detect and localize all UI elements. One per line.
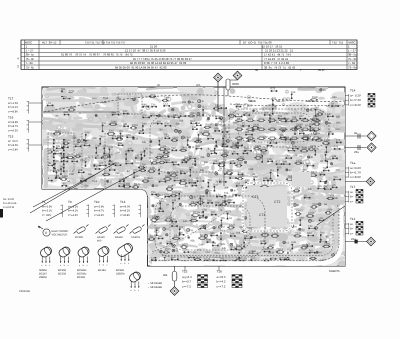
svg-text:C86: C86 bbox=[55, 175, 60, 178]
svg-text:T42: T42 bbox=[285, 155, 290, 158]
svg-text:C124: C124 bbox=[229, 223, 236, 226]
svg-text:R61: R61 bbox=[309, 249, 314, 252]
svg-text:69n: 69n bbox=[182, 101, 187, 104]
voltage table T13 bbox=[120, 200, 141, 217]
svg-text:c=+7.2: c=+7.2 bbox=[217, 284, 226, 288]
svg-text:R82: R82 bbox=[197, 178, 202, 181]
svg-text:91 80 79 78 75 74 75 66: 91 80 79 78 75 74 75 66 67 79 68 65 75 7… bbox=[61, 53, 133, 57]
svg-text:25k: 25k bbox=[293, 154, 298, 157]
svg-text:a=+3.8V: a=+3.8V bbox=[94, 206, 104, 209]
svg-text:C95601B: C95601B bbox=[19, 290, 30, 293]
svg-text:T81: T81 bbox=[61, 88, 66, 91]
svg-text:C368: C368 bbox=[324, 243, 331, 246]
svg-text:T17: T17 bbox=[8, 97, 14, 101]
small can MFS364B bbox=[128, 271, 142, 292]
svg-text:S864: S864 bbox=[181, 147, 187, 150]
small capacitor on 22a bbox=[355, 240, 358, 244]
svg-text:C51: C51 bbox=[164, 193, 169, 196]
svg-text:T15: T15 bbox=[8, 135, 14, 139]
svg-text:L16: L16 bbox=[267, 177, 272, 180]
svg-text:a=+1.5V: a=+1.5V bbox=[8, 102, 18, 105]
svg-text:T19: T19 bbox=[207, 179, 212, 182]
svg-text:b=: b= bbox=[350, 227, 354, 231]
svg-text:TA4001: TA4001 bbox=[131, 236, 140, 239]
dashed component box top left bbox=[118, 94, 142, 114]
svg-text:R910: R910 bbox=[64, 139, 71, 142]
svg-text:BY409: BY409 bbox=[75, 236, 83, 239]
svg-text:T89: T89 bbox=[158, 129, 163, 132]
svg-text:7– 34: 7– 34 bbox=[348, 61, 355, 65]
leader line 3 bbox=[46, 170, 140, 221]
copper trace: long worm 3 bbox=[120, 93, 200, 97]
test point diamond 21a bbox=[233, 71, 242, 80]
svg-text:L25: L25 bbox=[287, 250, 292, 253]
svg-text:T92: T92 bbox=[61, 182, 66, 185]
svg-text:T80: T80 bbox=[171, 218, 176, 221]
svg-text:D59: D59 bbox=[158, 208, 163, 211]
svg-text:T193: T193 bbox=[312, 203, 318, 206]
svg-text:R56: R56 bbox=[173, 114, 178, 117]
svg-text:D72: D72 bbox=[227, 210, 232, 213]
svg-text:T76: T76 bbox=[335, 169, 340, 172]
svg-text:D93: D93 bbox=[220, 230, 225, 233]
svg-text:L589: L589 bbox=[327, 209, 333, 212]
svg-text:c=+2.8V: c=+2.8V bbox=[8, 148, 18, 151]
svg-text:S439: S439 bbox=[253, 124, 259, 127]
connector diamond 22a bbox=[367, 237, 376, 246]
svg-text:T394: T394 bbox=[164, 97, 170, 100]
svg-text:L86: L86 bbox=[232, 150, 237, 153]
svg-text:R38: R38 bbox=[233, 122, 238, 125]
svg-text:R98: R98 bbox=[164, 122, 169, 125]
svg-text:93n: 93n bbox=[336, 121, 341, 124]
svg-text:L26: L26 bbox=[55, 169, 60, 172]
svg-text:T83: T83 bbox=[56, 145, 61, 148]
svg-text:a=y 8.4: a=y 8.4 bbox=[182, 275, 192, 279]
svg-text:b=+0.7: b=+0.7 bbox=[182, 280, 191, 284]
dashed loop around CT block bbox=[243, 183, 292, 231]
svg-text:R118: R118 bbox=[132, 124, 138, 127]
dashed arcs bottom right corner bbox=[152, 205, 339, 260]
dashed group box left bbox=[48, 133, 74, 171]
svg-text:T22: T22 bbox=[71, 158, 76, 161]
svg-text:L97: L97 bbox=[325, 151, 330, 154]
svg-text:SM–B: SM–B bbox=[248, 99, 256, 103]
white margin around CT block bbox=[243, 183, 292, 231]
svg-text:c=+0.8 W: c=+0.8 W bbox=[3, 206, 15, 209]
svg-text:T669: T669 bbox=[124, 182, 130, 185]
svg-text:L68: L68 bbox=[196, 122, 201, 125]
copper trace: long horizontal worm 1 bbox=[47, 93, 108, 96]
svg-text:c=: c= bbox=[350, 199, 353, 203]
matrix of pads upper right group bbox=[235, 119, 320, 140]
resistor 500R vertical bbox=[226, 79, 238, 96]
svg-text:C591: C591 bbox=[199, 198, 206, 201]
svg-text:R44: R44 bbox=[190, 120, 195, 123]
svg-text:L63: L63 bbox=[319, 217, 324, 220]
dashed loop center left bbox=[150, 116, 226, 172]
svg-text:D48: D48 bbox=[249, 168, 254, 171]
svg-text:R58: R58 bbox=[214, 128, 219, 131]
svg-text:b=+4.2: b=+4.2 bbox=[217, 280, 226, 284]
svg-text:77n: 77n bbox=[197, 249, 202, 252]
power transistor cylinder BC328 bbox=[116, 242, 134, 265]
svg-text:Ru 53 W: Ru 53 W bbox=[3, 198, 14, 201]
svg-text:S98: S98 bbox=[173, 161, 178, 164]
horizontal wire from left edge bbox=[42, 111, 120, 113]
svg-text:T31: T31 bbox=[267, 142, 272, 145]
svg-text:T905: T905 bbox=[295, 232, 301, 235]
svg-text:73– 6c: 73– 6c bbox=[348, 66, 357, 70]
svg-text:S52: S52 bbox=[235, 142, 240, 145]
capacitor on 9a line bbox=[358, 134, 360, 139]
svg-text:T67: T67 bbox=[303, 169, 308, 172]
svg-text:65n: 65n bbox=[92, 137, 97, 140]
svg-text:C47: C47 bbox=[299, 115, 304, 118]
resistor 40k bbox=[172, 272, 177, 282]
svg-text:C72: C72 bbox=[158, 166, 163, 169]
svg-text:CT2: CT2 bbox=[274, 200, 281, 204]
dashed alignment path right bbox=[230, 104, 344, 106]
leader line 4 bottom right bbox=[317, 206, 345, 225]
wide corner trace bottom right bbox=[152, 212, 336, 255]
svg-text:C37: C37 bbox=[140, 151, 145, 154]
svg-text:L36: L36 bbox=[179, 231, 184, 234]
svg-text:a=+8.0V: a=+8.0V bbox=[120, 206, 130, 209]
svg-text:T16: T16 bbox=[8, 116, 14, 120]
svg-text:c=+8.9V: c=+8.9V bbox=[8, 110, 18, 113]
svg-text:T14: T14 bbox=[350, 89, 356, 93]
svg-text:R76: R76 bbox=[235, 113, 240, 116]
svg-text:T1a: T1a bbox=[350, 161, 356, 165]
svg-text:T93: T93 bbox=[278, 115, 283, 118]
pointer line T17 bbox=[29, 102, 42, 104]
svg-text:69n: 69n bbox=[335, 128, 340, 131]
voltage table T15 bbox=[8, 135, 29, 152]
svg-text:T11: T11 bbox=[270, 169, 275, 172]
svg-text:L905: L905 bbox=[295, 187, 301, 190]
svg-text:T582: T582 bbox=[204, 130, 210, 133]
svg-text:S86: S86 bbox=[142, 103, 147, 106]
svg-text:T95: T95 bbox=[220, 217, 225, 220]
svg-text:14n: 14n bbox=[183, 220, 188, 223]
svg-text:L45: L45 bbox=[135, 155, 140, 158]
svg-text:T75: T75 bbox=[336, 139, 341, 142]
svg-text:82k: 82k bbox=[308, 188, 313, 191]
svg-text:c=: c= bbox=[350, 231, 353, 235]
svg-text:C90: C90 bbox=[95, 145, 100, 148]
svg-text:T91: T91 bbox=[115, 162, 120, 165]
svg-text:T44: T44 bbox=[151, 103, 156, 106]
svg-text:R92: R92 bbox=[166, 159, 171, 162]
svg-text:L80: L80 bbox=[328, 131, 333, 134]
svg-text:D13: D13 bbox=[291, 91, 296, 94]
top alignment data table bbox=[21, 40, 357, 70]
transistor can BC147 bbox=[39, 246, 53, 267]
bracket lines right margin bbox=[345, 94, 349, 235]
svg-text:97n: 97n bbox=[237, 219, 242, 222]
leader line 2 bbox=[33, 172, 100, 207]
svg-text:C986: C986 bbox=[111, 120, 118, 123]
svg-text:b=+8.6V: b=+8.6V bbox=[8, 144, 18, 147]
svg-text:C57: C57 bbox=[244, 235, 249, 238]
svg-text:2SB56: 2SB56 bbox=[39, 276, 47, 279]
note text lower left bbox=[3, 198, 17, 209]
transistor can BC548 bbox=[76, 246, 90, 267]
svg-text:T113: T113 bbox=[237, 161, 243, 164]
svg-text:b=+5.1V: b=+5.1V bbox=[8, 106, 18, 109]
svg-text:R12: R12 bbox=[123, 110, 128, 113]
svg-text:27k: 27k bbox=[172, 184, 177, 187]
svg-text:S705: S705 bbox=[165, 248, 171, 251]
svg-text:C62: C62 bbox=[306, 162, 311, 165]
svg-text:b=+8.7V: b=+8.7V bbox=[8, 125, 18, 128]
svg-text:T9: T9 bbox=[68, 200, 72, 204]
svg-text:C66: C66 bbox=[202, 209, 207, 212]
svg-text:42n: 42n bbox=[176, 122, 181, 125]
svg-text:84 95 93 98 91 90 LA 18 84 9: 84 95 93 98 91 90 LA 18 84 94 95 47 92 9… bbox=[130, 61, 187, 65]
svg-text:C31: C31 bbox=[192, 126, 197, 129]
svg-text:→ MFS364B: → MFS364B bbox=[147, 282, 162, 285]
svg-text:T60: T60 bbox=[158, 235, 163, 238]
svg-text:R571: R571 bbox=[311, 171, 318, 174]
svg-text:2SB55r: 2SB55r bbox=[116, 272, 125, 275]
svg-text:S29: S29 bbox=[194, 158, 199, 161]
svg-text:a=: a= bbox=[350, 222, 354, 226]
svg-text:22k: 22k bbox=[336, 116, 341, 119]
svg-text:T56: T56 bbox=[261, 153, 266, 156]
svg-text:C32: C32 bbox=[64, 111, 69, 114]
svg-text:D69: D69 bbox=[269, 115, 274, 118]
svg-text:S31: S31 bbox=[157, 120, 162, 123]
svg-text:55k: 55k bbox=[292, 116, 297, 119]
svg-text:T74: T74 bbox=[85, 159, 90, 162]
svg-text:22n: 22n bbox=[115, 172, 120, 175]
svg-text:c=+8.8V: c=+8.8V bbox=[120, 214, 130, 217]
svg-text:C922: C922 bbox=[163, 152, 170, 155]
svg-text:c=+8.9V: c=+8.9V bbox=[350, 175, 361, 179]
svg-text:C12: C12 bbox=[174, 177, 179, 180]
svg-text:C34: C34 bbox=[214, 145, 219, 148]
copper trace: long horizontal worm 2 bbox=[47, 101, 116, 105]
component cluster overlay: resistors capacitors pads labels bbox=[45, 88, 342, 266]
wire stem from diamond bbox=[217, 82, 219, 112]
bottom table T16 with check boxes bbox=[217, 270, 226, 289]
svg-text:b=+10.4 uA: b=+10.4 uA bbox=[3, 202, 17, 205]
svg-text:L88: L88 bbox=[332, 155, 337, 158]
svg-text:T990: T990 bbox=[153, 159, 159, 162]
svg-text:T94: T94 bbox=[178, 190, 183, 193]
svg-text:R11: R11 bbox=[102, 122, 107, 125]
svg-text:34k: 34k bbox=[200, 169, 205, 172]
svg-text:c: c bbox=[87, 264, 88, 267]
svg-text:R73: R73 bbox=[125, 151, 130, 154]
connector diamond 24a bbox=[366, 177, 374, 185]
svg-text:S985: S985 bbox=[196, 138, 202, 141]
svg-text:39k: 39k bbox=[142, 141, 147, 144]
svg-text:T47: T47 bbox=[242, 150, 247, 153]
svg-text:VOLTMETER: VOLTMETER bbox=[52, 234, 68, 237]
svg-text:D125: D125 bbox=[204, 258, 211, 261]
svg-text:c=+4.2V: c=+4.2V bbox=[68, 214, 78, 217]
svg-text:S917: S917 bbox=[141, 167, 147, 170]
svg-text:c: c bbox=[49, 264, 50, 267]
svg-text:T12: T12 bbox=[350, 217, 356, 221]
connector diamond 9a bbox=[367, 131, 376, 140]
svg-text:78k: 78k bbox=[200, 156, 205, 159]
pointer line T16 bbox=[29, 121, 42, 123]
svg-text:L92: L92 bbox=[75, 143, 80, 146]
voltage table T16 bbox=[8, 116, 29, 133]
voltage table T10 bbox=[94, 200, 115, 217]
svg-text:R86: R86 bbox=[320, 232, 325, 235]
svg-text:D61: D61 bbox=[307, 232, 312, 235]
svg-text:D696: D696 bbox=[255, 145, 262, 148]
connector diamond bottom bbox=[170, 287, 179, 296]
svg-text:T13: T13 bbox=[120, 200, 126, 204]
svg-text:T774: T774 bbox=[69, 90, 75, 93]
svg-text:T29: T29 bbox=[224, 192, 229, 195]
svg-text:D87: D87 bbox=[327, 113, 332, 116]
svg-text:c: c bbox=[138, 289, 139, 292]
svg-text:30k: 30k bbox=[224, 187, 229, 190]
svg-text:40k: 40k bbox=[163, 274, 168, 277]
diode package BY409 bbox=[74, 225, 89, 234]
svg-text:R344: R344 bbox=[190, 112, 197, 115]
svg-text:S73: S73 bbox=[126, 134, 131, 137]
svg-text:L888: L888 bbox=[313, 115, 319, 118]
svg-text:T32: T32 bbox=[323, 167, 328, 170]
svg-text:S70: S70 bbox=[179, 226, 184, 229]
svg-text:T52 T51: T52 T51 bbox=[332, 40, 344, 44]
dashed loop bottom center inner bbox=[170, 206, 250, 250]
wire to connector 23a bbox=[345, 147, 366, 149]
svg-text:C36: C36 bbox=[222, 135, 227, 138]
dashed loop upper right bbox=[229, 109, 329, 147]
svg-text:C518: C518 bbox=[191, 201, 198, 204]
svg-text:S683: S683 bbox=[165, 175, 171, 178]
svg-text:a= 0.2V: a= 0.2V bbox=[350, 94, 361, 98]
svg-text:c=+7.2: c=+7.2 bbox=[182, 284, 191, 288]
svg-text:D68: D68 bbox=[207, 200, 212, 203]
svg-text:L81: L81 bbox=[95, 166, 100, 169]
svg-text:S931: S931 bbox=[227, 169, 233, 172]
svg-text:S362: S362 bbox=[109, 130, 115, 133]
electronic voltmeter symbol bbox=[38, 226, 50, 236]
svg-text:73– 6c: 73– 6c bbox=[26, 66, 35, 70]
diode package TA4001 bbox=[130, 225, 145, 234]
svg-text:D41: D41 bbox=[326, 158, 331, 161]
svg-text:T93: T93 bbox=[151, 191, 156, 194]
voltage table T9 bbox=[68, 200, 89, 217]
copper trace: left edge vertical strip bbox=[44, 150, 48, 186]
svg-text:T50 T51 T52 T53 T54 T55 T56 T5: T50 T51 T52 T53 T54 T55 T56 T57 bbox=[85, 41, 126, 44]
voltage table T17 bbox=[8, 97, 29, 114]
svg-text:5348076: 5348076 bbox=[329, 270, 340, 273]
svg-text:L20: L20 bbox=[332, 184, 337, 187]
svg-text:T43: T43 bbox=[308, 225, 313, 228]
svg-text:84n: 84n bbox=[135, 175, 140, 178]
svg-text:C235: C235 bbox=[324, 139, 331, 142]
svg-text:L944: L944 bbox=[269, 244, 275, 247]
svg-text:T15: T15 bbox=[182, 270, 188, 274]
svg-text:L89: L89 bbox=[116, 152, 121, 155]
svg-text:R86: R86 bbox=[267, 158, 272, 161]
svg-text:D72: D72 bbox=[88, 156, 93, 159]
svg-text:c=+6.5V: c=+6.5V bbox=[8, 129, 18, 132]
svg-text:23a: 23a bbox=[354, 150, 359, 154]
svg-text:L65: L65 bbox=[309, 127, 314, 130]
svg-text:L49: L49 bbox=[325, 144, 330, 147]
svg-text:L95: L95 bbox=[189, 166, 194, 169]
svg-text:c: c bbox=[68, 264, 69, 267]
svg-text:R964: R964 bbox=[55, 130, 62, 133]
svg-text:T43: T43 bbox=[333, 176, 338, 179]
copper trace cluster: generated PCB traces bbox=[25, 79, 384, 273]
svg-text:R12: R12 bbox=[228, 199, 233, 202]
svg-text:D403: D403 bbox=[150, 235, 157, 238]
PCB board outline bbox=[42, 87, 345, 266]
svg-text:L49: L49 bbox=[172, 199, 177, 202]
svg-text:T10: T10 bbox=[94, 200, 100, 204]
svg-text:BF194: BF194 bbox=[98, 269, 106, 272]
svg-text:79k: 79k bbox=[334, 197, 339, 200]
svg-text:19k: 19k bbox=[179, 120, 184, 123]
svg-text:460: 460 bbox=[97, 239, 102, 242]
svg-text:30k: 30k bbox=[88, 173, 93, 176]
svg-text:c=+8.4V: c=+8.4V bbox=[350, 103, 361, 107]
svg-text:D44: D44 bbox=[213, 183, 218, 186]
dashed alignment path across top bbox=[44, 95, 344, 112]
svg-text:→ MFS364B: → MFS364B bbox=[147, 286, 162, 289]
svg-text:500Ω: 500Ω bbox=[232, 82, 239, 86]
svg-text:D93: D93 bbox=[199, 215, 204, 218]
svg-text:R54: R54 bbox=[118, 183, 123, 186]
svg-text:T39: T39 bbox=[245, 179, 250, 182]
svg-text:98k: 98k bbox=[300, 162, 305, 165]
bottom table T15 with check boxes bbox=[182, 270, 192, 289]
svg-text:S49: S49 bbox=[230, 233, 235, 236]
voltage table T1a bbox=[350, 161, 361, 179]
wire to connector 9a bbox=[345, 135, 366, 137]
svg-text:84 05 05 06 91 90 LA 84 94 95: 84 05 05 06 91 90 LA 84 94 95 47 92 83 bbox=[115, 66, 167, 70]
svg-text:L18: L18 bbox=[236, 183, 241, 186]
svg-text:T264: T264 bbox=[165, 148, 171, 151]
svg-text:D68: D68 bbox=[181, 159, 186, 162]
svg-text:S44: S44 bbox=[252, 250, 257, 253]
svg-text:R81: R81 bbox=[195, 145, 200, 148]
svg-text:T1: T1 bbox=[42, 200, 46, 204]
svg-text:L39: L39 bbox=[212, 242, 217, 245]
svg-text:T73: T73 bbox=[112, 135, 117, 138]
svg-text:c= 82V: c= 82V bbox=[42, 214, 51, 217]
svg-text:39 6c: 39 6c bbox=[318, 69, 325, 72]
svg-text:29k: 29k bbox=[72, 137, 77, 140]
svg-text:63n: 63n bbox=[84, 184, 89, 187]
svg-text:C73: C73 bbox=[207, 135, 212, 138]
svg-text:b=+8.2V: b=+8.2V bbox=[120, 210, 130, 213]
svg-text:R920: R920 bbox=[205, 124, 212, 127]
svg-text:38: 38 bbox=[255, 69, 258, 72]
svg-text:S55: S55 bbox=[210, 232, 215, 235]
svg-text:S21: S21 bbox=[245, 131, 250, 134]
voltage table T17r with boxes bbox=[350, 185, 356, 203]
svg-text:b=+4.7V: b=+4.7V bbox=[94, 210, 104, 213]
svg-text:b=+3.2V: b=+3.2V bbox=[42, 210, 52, 213]
svg-text:S12: S12 bbox=[230, 246, 235, 249]
svg-text:L40: L40 bbox=[109, 154, 114, 157]
svg-text:C48: C48 bbox=[69, 173, 74, 176]
